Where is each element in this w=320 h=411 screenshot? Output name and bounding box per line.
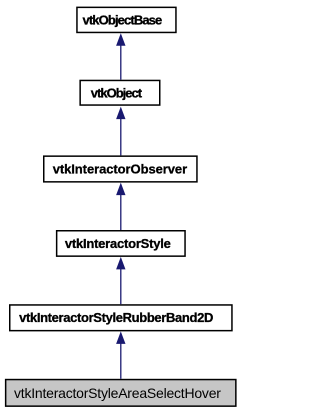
svg-text:vtkObjectBase: vtkObjectBase [83, 13, 163, 28]
svg-text:vtkInteractorStyleAreaSelectHo: vtkInteractorStyleAreaSelectHover [14, 385, 221, 401]
svg-text:vtkInteractorObserver: vtkInteractorObserver [53, 161, 187, 176]
svg-text:vtkInteractorStyleRubberBand2D: vtkInteractorStyleRubberBand2D [19, 310, 213, 325]
svg-text:vtkInteractorStyle: vtkInteractorStyle [65, 236, 171, 251]
svg-text:vtkObject: vtkObject [91, 86, 143, 101]
